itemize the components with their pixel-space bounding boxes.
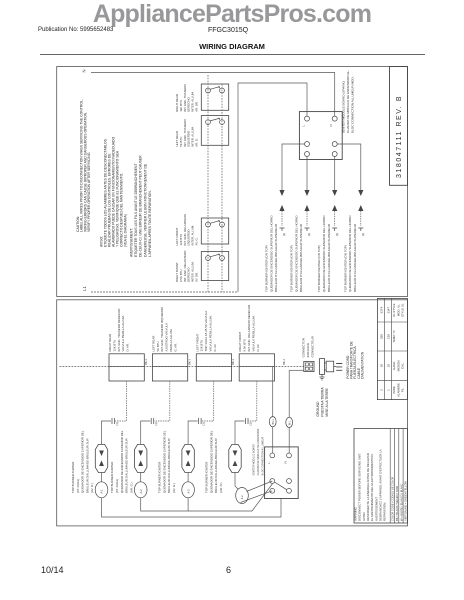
burner valve switch V3 box	[196, 354, 231, 381]
switch SW3 terminals	[206, 222, 211, 227]
ignitor module board U2 (bottom)	[265, 447, 299, 499]
svg-text:IGNITER MODULE BOARD: IGNITER MODULE BOARD	[253, 444, 256, 475]
spark gap electrode E1 arrows	[279, 190, 284, 196]
svg-text:1: 1	[387, 389, 391, 391]
svg-text:A-2: A-2	[139, 489, 143, 494]
burner valve switch V4 box	[239, 354, 274, 381]
top burner spark electrode G4 (octagon)	[229, 444, 241, 472]
svg-text:(1): (1)	[154, 422, 158, 425]
electrode terminal symbol 1	[112, 418, 115, 424]
spark gap electrode E2 arrows	[304, 190, 309, 196]
svg-text:(AR. G.): (AR. G.)	[129, 482, 133, 493]
switch SW3 arm	[210, 221, 220, 224]
surface burner spark switch SW3 box	[201, 218, 228, 244]
svg-text:BRULEUR D'ALLUMAGE-BRULEUR SUP: BRULEUR D'ALLUMAGE-BRULEUR SUP.	[125, 438, 129, 493]
svg-text:STYLE UL: STYLE UL	[401, 303, 405, 317]
valve V4 mid wire segment	[239, 366, 274, 368]
svg-text:(VEA EL DIAGRAMA): (VEA EL DIAGRAMA)	[124, 214, 128, 247]
module U2 terminal L	[270, 453, 275, 458]
svg-text:BRULEUR D'ALLUMAGE-BRULEUR SUP: BRULEUR D'ALLUMAGE-BRULEUR SUPERIEUR	[299, 223, 303, 292]
svg-text:L'APPAREIL APRES TOUTE REPARAT: L'APPAREIL APRES TOUTE REPARATION.	[148, 190, 152, 257]
connector oval A-3	[182, 482, 195, 498]
site header AppliancePartsPros.com	[0, 0, 464, 29]
valve V1 mid wire segment	[109, 366, 144, 368]
spark module board U1 (top)	[299, 112, 342, 160]
footer page number 6	[226, 565, 231, 575]
svg-text:DISCONNECT POWER BEFORE SERVIC: DISCONNECT POWER BEFORE SERVICING UNIT.	[358, 453, 362, 521]
svg-text:G. AV.: G. AV.	[213, 343, 217, 351]
wire octagon1 to oval	[102, 473, 282, 518]
svg-text:18: 18	[387, 364, 391, 368]
svg-text:QUEMADOR DE ENCENDIDO SUPERIOR: QUEMADOR DE ENCENDIDO SUPERIOR DEL HORNO	[348, 215, 352, 292]
svg-text:QUEMADOR DE ENCENDIDO SUPERIOR: QUEMADOR DE ENCENDIDO SUPERIOR DEL	[81, 430, 85, 493]
burner valve switch V1 box	[109, 354, 144, 381]
ground symbol	[320, 374, 325, 380]
svg-text:PUESTA A TIERRA: PUESTA A TIERRA	[320, 387, 324, 417]
svg-text:TOP BURNER IGNITER (ON TOP): TOP BURNER IGNITER (ON TOP)	[317, 245, 321, 292]
svg-text:ETIQUETER TOUS LES FILS AVANT: ETIQUETER TOUS LES FILS AVANT LE DEBRANC…	[134, 163, 138, 257]
svg-text:(1): (1)	[361, 233, 365, 236]
title block 318047111 REV. B	[390, 67, 408, 186]
electrode E3 terminal symbol	[332, 228, 337, 231]
svg-text:TOP BURNER IGNITER: TOP BURNER IGNITER	[71, 462, 75, 493]
svg-text:CONNECTOR: CONNECTOR	[302, 337, 306, 357]
svg-text:PERILLA ALLUM.: PERILLA ALLUM.	[169, 328, 173, 351]
wire label oval BK-1	[269, 417, 276, 427]
svg-text:AV. G.: AV. G.	[195, 237, 199, 245]
svg-text:MISE A LA TERRE: MISE A LA TERRE	[325, 387, 329, 416]
svg-text:TEMP. °C: TEMP. °C	[392, 330, 396, 343]
svg-text:BLOC CONNECTION ALLUMEUR MOD.: BLOC CONNECTION ALLUMEUR MOD.	[351, 76, 355, 133]
top burner spark electrode G2 (octagon)	[135, 444, 147, 472]
svg-text:2: 2	[380, 389, 384, 391]
svg-text:3374: 3374	[380, 307, 384, 314]
svg-text:4-2: 4-2	[240, 495, 244, 499]
svg-text:LEFT FRONT: LEFT FRONT	[195, 333, 199, 351]
svg-text:BK = BLACK / NEGRO / NOIR: BK = BLACK / NEGRO / NOIR	[395, 486, 399, 521]
svg-text:DANGEREUSE. VERIFIER LE BON FO: DANGEREUSE. VERIFIER LE BON FONCTIONNEME…	[143, 163, 147, 257]
power cord plug	[320, 359, 325, 375]
svg-text:(AV. G.): (AV. G.)	[172, 483, 176, 493]
wire L1 line	[91, 291, 238, 293]
svg-text:VERIFY PROPER OPERATION AFTER: VERIFY PROPER OPERATION AFTER SERVICING.	[87, 151, 91, 232]
wire electrode 4 lead	[235, 421, 245, 444]
svg-text:BRULEUR D'ALLUMAGE-BRULEUR SUP: BRULEUR D'ALLUMAGE-BRULEUR SUP.	[167, 438, 171, 493]
module U2 internal jumper	[274, 482, 287, 490]
svg-text:GROUND: GROUND	[316, 401, 320, 417]
electrode terminal symbol 4	[246, 418, 249, 424]
module U1 terminal N	[332, 116, 337, 121]
page title WIRING DIAGRAM	[0, 42, 464, 51]
svg-text:AR. G.: AR. G.	[195, 138, 199, 147]
module U2 lower terminals	[270, 479, 275, 484]
burner valve switch V2 box	[152, 354, 187, 381]
svg-text:BK-1: BK-1	[144, 358, 148, 364]
wire W to connector	[289, 369, 304, 371]
svg-text:REPARATION.: REPARATION.	[383, 502, 387, 521]
svg-text:TOP BURNER IGNITER: TOP BURNER IGNITER	[110, 462, 114, 493]
connector oval A-2	[134, 482, 147, 498]
wire W riser to module N	[288, 370, 290, 453]
switch SW1 arm	[210, 87, 220, 90]
wire octagon4 to oval and module	[235, 473, 272, 503]
svg-text:INT. ENC. TRASERO DERECHO: INT. ENC. TRASERO DERECHO	[117, 308, 121, 352]
svg-text:BK-1: BK-1	[282, 358, 286, 364]
svg-text:(9T. DUAL): (9T. DUAL)	[76, 479, 80, 493]
power connector J1	[304, 361, 314, 371]
wire valve V4 to electrode terminal	[249, 381, 257, 421]
surface burner spark switch SW1 box	[201, 84, 228, 110]
svg-text:BK-1: BK-1	[272, 419, 275, 425]
wire valve V2 to electrode terminal	[154, 381, 170, 421]
svg-text:QUEMADOR DE ENCENDIDO SUPERIOR: QUEMADOR DE ENCENDIDO SUPERIOR DEL HORNO	[294, 215, 298, 292]
svg-text:(1): (1)	[249, 422, 253, 425]
svg-text:(1): (1)	[115, 422, 119, 425]
wire spark output 3	[334, 157, 336, 191]
svg-text:BRULEUR D'ALLUMAGE-BRULEUR SUP: BRULEUR D'ALLUMAGE-BRULEUR SUPERIEUR	[327, 223, 331, 292]
svg-text:250: 250	[380, 334, 384, 339]
surface burner spark switch SW4 box	[201, 252, 228, 281]
wire electrode 2 lead	[141, 421, 151, 444]
svg-text:D. AR.: D. AR.	[126, 343, 130, 352]
spark gap electrode E4 arrows	[358, 190, 363, 196]
svg-text:FIL: FIL	[401, 388, 405, 393]
svg-text:QUEMADOR DE ENCENDIDO SUPERIOR: QUEMADOR DE ENCENDIDO SUPERIOR DEL HORNO	[322, 215, 326, 292]
wire valve V3 to electrode terminal	[202, 381, 214, 421]
svg-text:18: 18	[380, 364, 384, 368]
svg-text:QUEMADOR DE ENCENDIDO SUPERIOR: QUEMADOR DE ENCENDIDO SUPERIOR DEL	[209, 430, 213, 493]
wire spark output 1	[282, 144, 305, 190]
svg-text:12K BTU: 12K BTU	[200, 340, 204, 352]
svg-text:AVERTISSEMENT:: AVERTISSEMENT:	[129, 228, 133, 257]
svg-text:BLOC CONNECTION ALLUMEUR: BLOC CONNECTION ALLUMEUR	[262, 437, 265, 476]
svg-text:(1): (1)	[335, 233, 339, 236]
svg-text:VALVULA PERILLA ALLUM.: VALVULA PERILLA ALLUM.	[209, 315, 213, 351]
svg-text:N: N	[82, 69, 87, 72]
wire octagon2 to bus	[141, 473, 273, 512]
surface burner spark switch SW2 box	[201, 116, 228, 146]
wire specification table	[377, 298, 407, 399]
module U1 output terminals	[305, 142, 310, 147]
wire main valve bus BK	[60, 366, 304, 368]
svg-text:QUEMADOR DE ENCENDIDO SUPERIOR: QUEMADOR DE ENCENDIDO SUPERIOR DEL	[162, 430, 166, 493]
svg-text:TOP BURNER IGNITER (ON TOP): TOP BURNER IGNITER (ON TOP)	[290, 245, 294, 292]
module U2 terminal N	[287, 453, 292, 458]
svg-text:BRULEUR D'ALLUMAGE-BRULEUR SUP: BRULEUR D'ALLUMAGE-BRULEUR SUPERIEUR	[353, 223, 357, 292]
wire spark output 4	[337, 144, 361, 190]
svg-text:INT. ENC. DELANTERO DERECHO: INT. ENC. DELANTERO DERECHO	[247, 304, 251, 351]
connector oval A-1	[95, 482, 108, 498]
electrode E2 terminal symbol	[305, 228, 310, 231]
svg-text:CAL.: CAL.	[401, 362, 405, 369]
electrode terminal symbol 3	[199, 418, 202, 424]
svg-text:3347: 3347	[387, 307, 391, 314]
wire label oval W-1	[286, 417, 293, 427]
svg-text:G. AR.: G. AR.	[173, 343, 177, 352]
svg-text:TOP BURNER IGNITER: TOP BURNER IGNITER	[205, 462, 209, 493]
svg-text:QUEMADOR DE ENCENDIDO SUPERIOR: QUEMADOR DE ENCENDIDO SUPERIOR DEL	[120, 430, 124, 493]
wire right vertical bus to module L	[238, 83, 307, 292]
wire switch common bus	[207, 75, 209, 292]
valve V3 mid wire segment	[196, 366, 231, 368]
svg-text:INT. ENC. TRASERO IZQUIERDO: INT. ENC. TRASERO IZQUIERDO	[160, 306, 164, 351]
top schematic border box	[57, 67, 408, 297]
bottom schematic border box	[57, 300, 408, 526]
svg-text:TOP BURNER IGNITER (ON TOP): TOP BURNER IGNITER (ON TOP)	[343, 245, 347, 292]
electrode E4 terminal symbol	[358, 228, 363, 231]
svg-text:(AV. D.): (AV. D.)	[90, 483, 94, 493]
svg-text:RIGHT REAR: RIGHT REAR	[108, 334, 112, 352]
svg-text:A-1: A-1	[100, 489, 104, 494]
wire valve V1 to electrode terminal	[115, 381, 127, 421]
svg-text:AJUSTADO VALVULA: AJUSTADO VALVULA	[165, 323, 169, 352]
svg-text:IGNITER MODULE BOARD (SPARK): IGNITER MODULE BOARD (SPARK)	[342, 81, 346, 133]
svg-text:VALVULA PERILLA ALLUM.: VALVULA PERILLA ALLUM.	[121, 315, 125, 351]
svg-text:150: 150	[387, 334, 391, 339]
svg-text:L: L	[267, 462, 271, 464]
svg-text:TOP BURNER IGNITER (ON TOP): TOP BURNER IGNITER (ON TOP)	[265, 245, 269, 292]
top burner spark electrode G3 (octagon)	[182, 444, 194, 472]
svg-text:L: L	[302, 125, 306, 127]
footer date 10/14	[41, 565, 64, 575]
svg-text:(1): (1)	[202, 422, 206, 425]
svg-text:BK-1: BK-1	[188, 358, 192, 364]
spark gap electrode E3 arrows	[332, 190, 337, 196]
switch SW2 terminals	[206, 120, 211, 125]
svg-text:VALVULA PERILLA ALLUM.: VALVULA PERILLA ALLUM.	[251, 315, 255, 351]
svg-text:BRULEUR D'ALLUMAGE-BRULEUR SUP: BRULEUR D'ALLUMAGE-BRULEUR SUP.	[214, 438, 218, 493]
switch SW1 terminals	[206, 88, 211, 93]
svg-text:RIGHT FRONT: RIGHT FRONT	[238, 332, 242, 352]
svg-text:BK-1: BK-1	[231, 358, 235, 364]
svg-text:A-3: A-3	[186, 489, 190, 494]
switch SW4 terminals	[206, 256, 211, 261]
svg-text:VERT/JAUNE = GREEN/YELLOW: VERT/JAUNE = GREEN/YELLOW	[404, 481, 408, 521]
svg-text:(1): (1)	[307, 233, 311, 236]
model number FFGC3015Q	[208, 27, 248, 34]
svg-text:9.5K BTU: 9.5K BTU	[243, 339, 247, 352]
svg-text:N: N	[284, 461, 288, 463]
svg-text:DE CEUX-CI. UNE ERREUR DE BRAN: DE CEUX-CI. UNE ERREUR DE BRANCHEMENT PE…	[139, 155, 143, 257]
warning text box	[354, 429, 407, 524]
title underline rule	[40, 54, 425, 55]
svg-text:W-1: W-1	[288, 420, 291, 425]
svg-text:N: N	[329, 124, 333, 126]
svg-text:AR. DR.: AR. DR.	[195, 101, 199, 112]
svg-text:(AR. D.): (AR. D.)	[219, 483, 223, 493]
top burner spark electrode G1 (octagon)	[95, 444, 107, 472]
wire electrode 3 lead	[188, 421, 198, 444]
svg-text:TOP. DUAL 18-25.5K VALVULA: TOP. DUAL 18-25.5K VALVULA	[204, 311, 208, 352]
wire octagon3 to bus	[187, 473, 189, 512]
wire electrode 1 lead	[102, 421, 112, 444]
svg-text:12K BTU: 12K BTU	[112, 340, 116, 352]
publication number	[38, 27, 113, 33]
svg-text:ENCHUFE: ENCHUFE	[306, 343, 310, 358]
valve V2 mid wire segment	[152, 366, 187, 368]
svg-text:W = WHITE / BLANCO / BLANC: W = WHITE / BLANCO / BLANC	[399, 483, 403, 521]
svg-text:D'ALIMENTATION: D'ALIMENTATION	[360, 351, 364, 379]
svg-text:TOP BURNER IGNITER: TOP BURNER IGNITER	[158, 462, 162, 493]
switch SW4 arm	[210, 254, 220, 257]
svg-text:(9T. DUAL): (9T. DUAL)	[115, 479, 119, 493]
module U1 terminal L	[305, 116, 310, 121]
electrode E1 terminal symbol	[280, 228, 285, 231]
svg-text:AV. DR.: AV. DR.	[195, 272, 199, 282]
connector oval A-4	[236, 488, 249, 504]
svg-text:BRULEUR D'ALLUMAGE-BRULEUR SUP: BRULEUR D'ALLUMAGE-BRULEUR SUPERIEUR	[274, 223, 278, 292]
svg-text:COLOR CODE / CODIGO DE COLOR: COLOR CODE / CODIGO DE COLOR	[391, 476, 395, 521]
wire neutral N line	[91, 73, 335, 117]
svg-text:BRULEUR D'ALLUMAGE-BRULEUR SUP: BRULEUR D'ALLUMAGE-BRULEUR SUP.	[85, 438, 89, 493]
svg-text:LEFT REAR: LEFT REAR	[151, 336, 155, 352]
electrode terminal symbol 2	[151, 418, 154, 424]
svg-text:CONNECTEUR: CONNECTEUR	[310, 335, 314, 357]
svg-text:L1: L1	[82, 286, 87, 291]
svg-text:CUADRO DE MODULO DE ENCENDIDO: CUADRO DE MODULO DE ENCENDIDO	[257, 429, 260, 476]
svg-text:D. AV.: D. AV.	[256, 344, 260, 352]
svg-text:5K BTU: 5K BTU	[156, 341, 160, 351]
switch SW2 arm	[210, 118, 220, 121]
color code legend strips	[390, 429, 403, 524]
svg-text:CUADRO DE MODULO DE ENCENDIDO: CUADRO DE MODULO DE ENCENDIDO EL.	[346, 70, 350, 133]
svg-text:318047111 REV. B: 318047111 REV. B	[396, 95, 403, 178]
wire switch output bus	[221, 84, 223, 292]
svg-text:QUEMADOR DE ENCENDIDO SUPERIOR: QUEMADOR DE ENCENDIDO SUPERIOR DEL HORNO	[269, 215, 273, 292]
wire BK riser to module L	[272, 367, 274, 454]
wire spark output 2	[306, 157, 308, 191]
svg-text:(1): (1)	[282, 233, 286, 236]
